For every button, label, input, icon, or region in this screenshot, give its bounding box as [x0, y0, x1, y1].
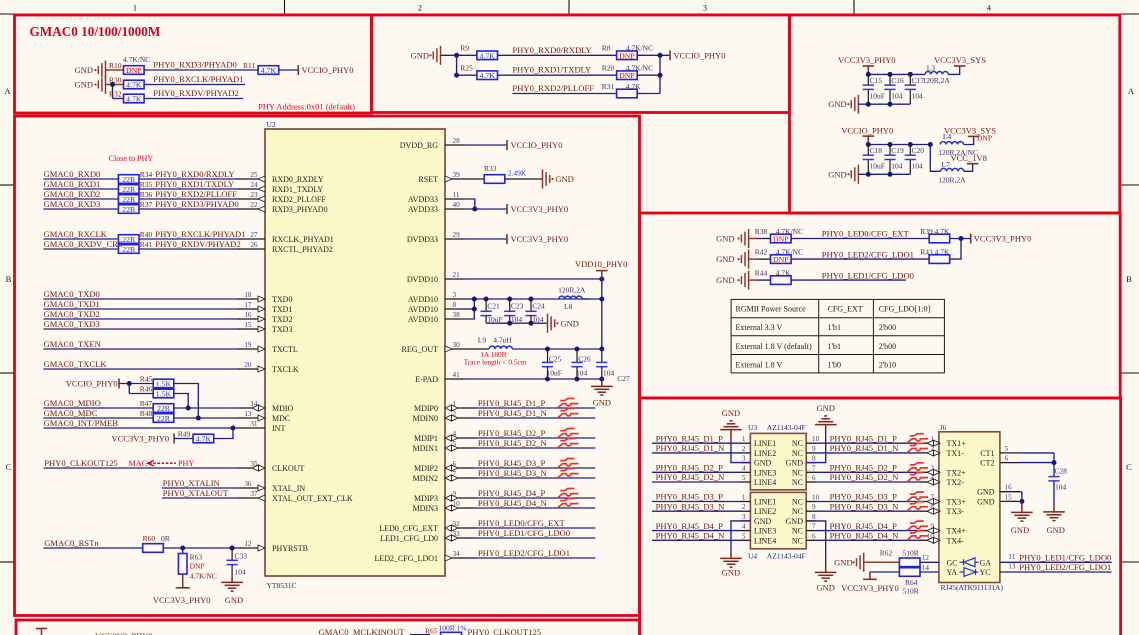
differential pair mark PHY0_RJ45_D1_P J6 [907, 434, 928, 444]
svg-text:R30: R30 [109, 76, 122, 85]
differential pair mark PHY0_RJ45_D3_N J6 [907, 502, 928, 512]
capacitor C18 [863, 145, 885, 175]
sheet zone tick left C/D [0, 561, 15, 563]
net label GMAC0_MCLKINOUT (box7) [319, 627, 431, 635]
svg-text:VCCIO_PHY0: VCCIO_PHY0 [674, 50, 726, 60]
wire net PHY0_RJ45_D3_N (to J6) [816, 501, 929, 511]
svg-text:DNP: DNP [190, 562, 205, 571]
wire R32 to net end / net PHY0_RXDV/PHYAD2 [144, 88, 243, 99]
svg-text:R49: R49 [178, 430, 191, 439]
pin 2 U3 LINE2 [741, 445, 777, 458]
svg-text:PHYRSTB: PHYRSTB [272, 544, 308, 553]
pin 6 J6 CT2 [980, 455, 1019, 468]
svg-text:AVDD10: AVDD10 [408, 315, 438, 324]
svg-text:PHY0_RXD2/PLLOFF: PHY0_RXD2/PLLOFF [512, 83, 594, 93]
junction L8/VDD10 [599, 297, 604, 302]
ground GND (box1 row1) [75, 61, 106, 80]
power port VCC3V3_SYS DNP (box3 g2) [944, 125, 996, 142]
svg-text:B: B [6, 274, 12, 284]
resistor R46 1.5K [140, 385, 174, 399]
pin 16 J6 GND [977, 484, 1019, 497]
sheet zone tick right C/D [1120, 561, 1139, 563]
pin 38 AVDD10 [408, 311, 465, 324]
ground GND (RSET) [543, 170, 574, 189]
svg-text:MDIP3: MDIP3 [414, 494, 438, 503]
svg-text:4.7uH: 4.7uH [493, 335, 512, 344]
pin 1 U4 LINE1 [741, 494, 777, 507]
pin 1 MDIP0 [414, 400, 465, 413]
svg-text:CFG_EXT: CFG_EXT [828, 305, 863, 314]
svg-text:PHY0_RXD3/PHYAD0: PHY0_RXD3/PHYAD0 [155, 199, 239, 209]
svg-text:23: 23 [250, 191, 258, 199]
wire R10 to R11 / net PHY0_RXD3/PHYAD0 [144, 60, 258, 71]
pin 24 RXD1_TXDLY [245, 181, 323, 194]
svg-text:100R 1%: 100R 1% [439, 624, 467, 633]
svg-text:PHY0_RJ45_D4_P: PHY0_RJ45_D4_P [656, 521, 724, 531]
wire GND row2 to R30 [106, 84, 124, 86]
svg-text:3: 3 [703, 4, 707, 13]
junction C21 [484, 297, 489, 302]
svg-text:GND: GND [786, 459, 804, 468]
svg-text:PHY0_RJ45_D2_P: PHY0_RJ45_D2_P [830, 463, 898, 473]
svg-text:GMAC0_TXD1: GMAC0_TXD1 [44, 299, 100, 309]
wire R48 to chip [174, 417, 245, 419]
pin 30 REG_OUT [402, 341, 465, 354]
svg-text:GMAC0_TXD2: GMAC0_TXD2 [44, 309, 100, 319]
wire DVDD10 to VDD10 node [465, 278, 602, 280]
svg-text:LED2_CFG_LDO1: LED2_CFG_LDO1 [374, 554, 438, 563]
svg-text:104: 104 [1055, 482, 1067, 491]
svg-text:MDIN2: MDIN2 [413, 474, 438, 483]
svg-text:PHY0_RXCLK/PHYAD1: PHY0_RXCLK/PHYAD1 [153, 74, 243, 84]
pin 14 MDIO [245, 400, 294, 413]
wire net PHY0_RJ45_D2_P (left of U3/U4) [652, 463, 741, 473]
junction C27 top [599, 347, 604, 352]
power port VCCIO_PHY0 (box2) [670, 50, 725, 60]
svg-text:TX1-: TX1- [947, 449, 965, 458]
svg-text:LINE3: LINE3 [754, 468, 776, 477]
svg-text:DNP: DNP [773, 255, 789, 264]
svg-text:GND: GND [561, 318, 579, 328]
svg-text:R36: R36 [140, 190, 153, 199]
svg-text:DVDD10: DVDD10 [407, 275, 438, 284]
svg-text:LINE2: LINE2 [754, 449, 776, 458]
svg-text:R20: R20 [602, 64, 615, 73]
svg-text:104: 104 [603, 368, 615, 377]
junction C27 bottom [599, 377, 604, 382]
wire R46 to MDIO [174, 394, 188, 409]
svg-text:GMAC0_MCLKINOUT: GMAC0_MCLKINOUT [319, 627, 406, 635]
junction C15 bottom [866, 102, 871, 107]
svg-text:PHY0_RJ45_D2_P: PHY0_RJ45_D2_P [478, 428, 546, 438]
svg-text:XTAL_IN: XTAL_IN [272, 484, 305, 493]
svg-text:U4: U4 [748, 551, 757, 560]
svg-text:R11: R11 [243, 61, 255, 70]
resistor R49 4.7K [178, 430, 214, 444]
connector J6 RJ45 body [939, 423, 1004, 592]
wire net GMAC0_RXCLK [44, 229, 119, 239]
svg-text:R32: R32 [109, 90, 122, 99]
svg-text:22R: 22R [157, 414, 171, 423]
svg-text:NC: NC [792, 507, 803, 516]
svg-text:104: 104 [235, 568, 247, 577]
pin 3 U4 GND [741, 513, 772, 526]
svg-text:L7: L7 [942, 160, 951, 169]
junction VCCIO branch [127, 381, 132, 386]
wire R30 to net end / net PHY0_RXCLK/PHYAD1 [144, 74, 245, 85]
wire L7 to VCC_1V8 [964, 164, 973, 172]
svg-text:MDIN1: MDIN1 [413, 444, 438, 453]
resistor R8 [602, 44, 653, 61]
svg-text:4.7K: 4.7K [480, 71, 496, 80]
svg-text:39: 39 [453, 171, 461, 179]
svg-text:PHY0_CLKOUT125: PHY0_CLKOUT125 [468, 627, 542, 635]
svg-text:VCC3V3_PHY0: VCC3V3_PHY0 [511, 234, 569, 244]
svg-text:VCC3V3_PHY0: VCC3V3_PHY0 [974, 234, 1032, 244]
svg-text:22R: 22R [157, 404, 171, 413]
pin 5 U3 LINE4 [741, 474, 777, 487]
power port VCC3V3_PHY0 (AVDD33) [507, 204, 568, 214]
svg-text:External 1.8 V (default): External 1.8 V (default) [736, 342, 812, 351]
svg-text:510R: 510R [903, 548, 919, 557]
resistor R10 [109, 55, 150, 75]
pin 7 J6 TX3+ [927, 494, 966, 507]
wire net PHY0_LED1/CFG_LDO0 (U2 side) [465, 528, 595, 538]
svg-text:PHY0_RXD0/RXDLY: PHY0_RXD0/RXDLY [155, 169, 234, 179]
wire DVDD33 to VCC3V3_PHY0 [465, 238, 507, 240]
svg-text:YC: YC [980, 568, 991, 577]
svg-text:VCCIO_PHY0: VCCIO_PHY0 [66, 379, 118, 389]
svg-text:R47: R47 [140, 399, 153, 408]
svg-text:TXCTL: TXCTL [272, 345, 298, 354]
wire ground rail g2 [858, 173, 910, 175]
svg-text:LINE3: LINE3 [754, 527, 776, 536]
svg-text:PHY0_RXD2/PLLOFF: PHY0_RXD2/PLLOFF [155, 189, 237, 199]
wire net GMAC0_RXD3 [44, 199, 119, 209]
junction AVDD10 b [472, 307, 477, 312]
pin 25 RXD0_RXDLY [245, 171, 324, 184]
svg-text:CLKOUT: CLKOUT [272, 464, 305, 473]
svg-text:R43 4.7K: R43 4.7K [920, 248, 950, 257]
wire net PHY0_RJ45_D4_P (U2 side) [465, 488, 595, 498]
svg-text:41: 41 [453, 371, 461, 379]
junction R39/R43 [959, 236, 964, 241]
wire R62 to J6 pin12 [920, 561, 939, 563]
wire R47 to chip [174, 407, 245, 409]
capacitor C17 [905, 74, 925, 104]
svg-text:104: 104 [891, 91, 903, 100]
wire R64 to J6 pin14 [920, 571, 939, 573]
svg-text:38: 38 [453, 311, 461, 319]
svg-text:TX3-: TX3- [947, 507, 965, 516]
svg-text:104: 104 [912, 91, 924, 100]
wire net PHY0_XTALIN [162, 478, 245, 488]
svg-text:PHY0_RXD1/TXDLY: PHY0_RXD1/TXDLY [512, 65, 591, 75]
svg-text:37: 37 [250, 490, 258, 498]
svg-text:9: 9 [812, 503, 816, 511]
resistor R47 22R [140, 399, 174, 413]
pin 33 LED1_CFG_LD0 [380, 530, 465, 543]
svg-text:VCC3V3_PHY0: VCC3V3_PHY0 [841, 583, 899, 593]
svg-text:GMAC0_RXDV_CRS: GMAC0_RXDV_CRS [44, 239, 123, 249]
svg-text:PHY0_RJ45_D4_N: PHY0_RJ45_D4_N [656, 531, 726, 541]
svg-text:10uF: 10uF [487, 315, 502, 324]
svg-text:NC: NC [792, 478, 803, 487]
svg-text:MDIP2: MDIP2 [414, 464, 438, 473]
svg-text:26: 26 [250, 241, 258, 249]
wire net PHY0_RJ45_D4_P (left of U3/U4) [652, 521, 741, 531]
svg-text:8: 8 [812, 455, 816, 463]
svg-text:36: 36 [244, 480, 252, 488]
resistor R60 0R [143, 534, 170, 552]
svg-text:18: 18 [244, 291, 252, 299]
wire vertical to R25 row [456, 55, 458, 75]
resistor R30 [109, 76, 144, 90]
svg-text:4: 4 [987, 4, 991, 13]
sheet ruler top line [0, 13, 1139, 15]
pin 12 J6 GC [922, 554, 958, 567]
wire net PHY0_LED2/CFG_LDO1 [791, 249, 929, 259]
wire net PHY0_RJ45_D2_N (left of U3/U4) [652, 472, 741, 482]
wire CT1/CT2 to C28 [1019, 453, 1054, 477]
svg-text:4.7K: 4.7K [196, 435, 212, 444]
junction C15 top [866, 72, 871, 77]
junction INT/R49 [231, 426, 236, 431]
wire AVDD10 pins joined [465, 299, 486, 319]
svg-text:28: 28 [453, 137, 461, 145]
wire net PHY0_RJ45_D4_P (to J6) [816, 521, 929, 531]
svg-text:22: 22 [250, 201, 258, 209]
svg-text:R31: R31 [602, 82, 615, 91]
svg-text:30: 30 [453, 341, 461, 349]
wire GND to R62 [864, 561, 900, 563]
pin 7 U3 NC [792, 464, 816, 477]
pin 39 RSET [418, 171, 465, 184]
svg-text:34: 34 [453, 550, 461, 558]
pin 19 TXCTL [244, 341, 298, 354]
svg-text:22R: 22R [122, 245, 136, 254]
pin 17 TXD1 [244, 301, 292, 314]
pin 2 U4 LINE2 [741, 503, 777, 516]
svg-text:PHY0_CLKOUT125: PHY0_CLKOUT125 [44, 458, 118, 468]
ground GND (U3 pin3 left) [720, 408, 750, 463]
wire net GMAC0_RXD0 [44, 169, 119, 179]
resistor R31 [602, 82, 641, 98]
svg-text:LINE1: LINE1 [754, 498, 776, 507]
svg-text:GND: GND [722, 568, 740, 578]
svg-text:DNP: DNP [619, 51, 635, 60]
capacitor C19 [884, 145, 904, 175]
differential pair mark PHY0_RJ45_D2_P [558, 429, 579, 439]
svg-text:10: 10 [812, 435, 820, 443]
svg-text:GND: GND [754, 459, 772, 468]
junction C33 branch [230, 546, 235, 551]
svg-text:MDC: MDC [272, 414, 290, 423]
wire net PHY0_RJ45_D1_N (left of U3/U4) [652, 443, 741, 453]
svg-text:24: 24 [250, 181, 258, 189]
junction C25 bottom [545, 377, 550, 382]
svg-text:VDD10_PHY0: VDD10_PHY0 [575, 259, 627, 269]
svg-text:TX1+: TX1+ [947, 439, 967, 448]
wire net GMAC0_TXCLK [44, 359, 246, 369]
svg-text:GMAC0_RXCLK: GMAC0_RXCLK [44, 229, 108, 239]
svg-text:PHY0_RXD0/RXDLY: PHY0_RXD0/RXDLY [512, 45, 591, 55]
sheet zone tick right B/C [1120, 372, 1139, 374]
svg-text:104: 104 [576, 368, 588, 377]
svg-text:PHY0_LED1/CFG_LDO0: PHY0_LED1/CFG_LDO0 [1019, 552, 1111, 562]
inductor L9 4.7uH [478, 335, 513, 349]
wire RSET to R33 [465, 178, 484, 180]
junction AVDD10 a [472, 297, 477, 302]
svg-text:VCC3V3_SYS: VCC3V3_SYS [934, 55, 986, 65]
svg-text:PHY0_LED2/CFG_LDO1: PHY0_LED2/CFG_LDO1 [822, 249, 914, 259]
svg-text:2: 2 [742, 445, 746, 453]
junction C23 gnd [507, 321, 512, 326]
wire net PHY0_XTALOUT [162, 488, 245, 498]
pin 41 E-PAD [415, 371, 465, 384]
svg-text:R65: R65 [425, 627, 438, 635]
svg-text:NC: NC [792, 468, 803, 477]
wire R25 to R20 / net PHY0_RXD1/TXDLY [498, 65, 617, 76]
junction C26 top [575, 347, 580, 352]
pin 23 RXD2_PLLOFF [245, 191, 326, 204]
svg-text:8: 8 [812, 513, 816, 521]
red block border top middle box [372, 15, 790, 113]
svg-text:R35: R35 [140, 180, 153, 189]
svg-text:DVDD_RG: DVDD_RG [400, 141, 438, 150]
power port (box7, clipped) [36, 629, 47, 635]
wire net GMAC0_TXD1 [44, 299, 246, 309]
junction R46/MDIO [186, 406, 191, 411]
svg-text:R8: R8 [602, 44, 611, 53]
pin 12 PHYRSTB [244, 540, 308, 553]
svg-text:PHY0_RXCLK/PHYAD1: PHY0_RXCLK/PHYAD1 [155, 229, 245, 239]
wire net GMAC0_MDIO [44, 398, 153, 408]
wire branch to L7 [930, 145, 940, 172]
junction C23 [507, 297, 512, 302]
svg-text:120R,2A: 120R,2A [558, 286, 586, 295]
red block border main chip box [15, 116, 640, 616]
svg-text:19: 19 [244, 341, 252, 349]
pin 5 U4 LINE4 [741, 532, 777, 545]
wire net PHY0_RXCLK/PHYAD1 [139, 229, 246, 239]
wire net GMAC0_RXDV_CRS [44, 239, 123, 249]
wire net GMAC0_TXD0 [44, 289, 246, 299]
differential pair mark PHY0_RJ45_D2_N J6 [907, 473, 928, 483]
svg-text:PHY0_RXDV/PHYAD2: PHY0_RXDV/PHYAD2 [155, 239, 240, 249]
junction (VCCIO rail row2) [658, 73, 663, 78]
wire net PHY0_RJ45_D1_N (U2 side) [465, 408, 595, 418]
pin 10 U3 NC [792, 435, 820, 448]
svg-text:GMAC0_RXD1: GMAC0_RXD1 [44, 179, 101, 189]
svg-text:GND: GND [411, 50, 429, 60]
power port VCCIO_PHY0 (R45/R46) [66, 379, 119, 389]
wire REG_OUT to L9 [465, 348, 489, 350]
pin 15 J6 GND [977, 493, 1019, 506]
pin 6 U3 NC [792, 474, 816, 487]
ground GND (R44) [716, 271, 749, 290]
wire GND to junction to R9 [441, 54, 477, 56]
svg-text:PHY0_RJ45_D4_N: PHY0_RJ45_D4_N [478, 498, 548, 508]
svg-text:PHY0_RJ45_D3_P: PHY0_RJ45_D3_P [656, 492, 724, 502]
svg-text:GND: GND [1046, 525, 1064, 535]
differential pair mark PHY0_RJ45_D4_N J6 [907, 531, 928, 541]
wire L9 to VDD10 rail [512, 348, 601, 350]
svg-text:YT8531C: YT8531C [267, 581, 297, 590]
resistor R43 4.7K [920, 248, 950, 264]
power port VCC3V3_PHY0 (box5) [971, 234, 1032, 244]
pin 10 U4 NC [792, 494, 820, 507]
wire R49 to INT [214, 428, 233, 439]
pin 7 U4 NC [792, 523, 816, 536]
svg-text:VCC3V3_PHY0: VCC3V3_PHY0 [153, 595, 211, 605]
svg-text:GND: GND [555, 174, 573, 184]
pin 21 DVDD10 [407, 271, 465, 284]
wire AVDD10 rail to L8 [486, 298, 591, 300]
svg-text:RXCTL_PHYAD2: RXCTL_PHYAD2 [272, 245, 333, 254]
wire net PHY0_RJ45_D4_N (U2 side) [465, 498, 595, 508]
red block border bottom clock box [16, 620, 640, 635]
svg-text:13: 13 [1008, 563, 1016, 571]
wire net PHY0_LED1/CFG_LDO0 (J6 pin11) [1000, 552, 1112, 562]
svg-text:GMAC0_MDC: GMAC0_MDC [44, 408, 98, 418]
power port VCC3V3_SYS (box3 g1) [934, 55, 986, 66]
pin 4 J6 TX2- [927, 474, 964, 487]
power port VCC3V3_PHY0 (below R63) [153, 574, 211, 605]
svg-text:31: 31 [250, 420, 258, 428]
svg-text:PHY0_XTALIN: PHY0_XTALIN [163, 478, 221, 488]
svg-text:PHY0_LED0/CFG_EXT: PHY0_LED0/CFG_EXT [822, 229, 910, 239]
svg-text:PHY0_LED0/CFG_EXT: PHY0_LED0/CFG_EXT [478, 518, 566, 528]
svg-text:29: 29 [453, 231, 461, 239]
svg-text:CFG_LDO[1:0]: CFG_LDO[1:0] [879, 305, 931, 314]
svg-text:R46: R46 [140, 385, 153, 394]
svg-text:510R: 510R [903, 586, 919, 595]
junction GND15 [1019, 499, 1024, 504]
svg-text:MAC: MAC [129, 459, 148, 468]
pin 4 U3 LINE3 [741, 464, 777, 477]
wire vertical row2 to row3 [112, 85, 114, 99]
pin 6 U4 NC [792, 532, 816, 545]
svg-text:2.49K: 2.49K [508, 169, 527, 178]
svg-text:VCC3V3_PHY0: VCC3V3_PHY0 [838, 55, 896, 65]
svg-text:Close to PHY: Close to PHY [109, 154, 154, 163]
resistor R34 22R [118, 170, 152, 184]
pin 26 RXCTL_PHYAD2 [245, 241, 333, 254]
svg-text:GND: GND [977, 488, 995, 497]
svg-text:AZ1143-04F: AZ1143-04F [767, 551, 806, 560]
svg-text:10uF: 10uF [870, 91, 885, 100]
svg-text:B: B [1126, 274, 1132, 284]
svg-text:21: 21 [453, 271, 461, 279]
wire GND to R42 [749, 258, 757, 260]
svg-text:R42: R42 [755, 248, 768, 257]
svg-text:U2: U2 [267, 120, 276, 129]
wire ground rail g1 [858, 103, 910, 105]
power port VCCIO_PHY0 (box3 g2) [841, 125, 893, 144]
resistor R38 [755, 227, 803, 243]
svg-text:LINE2: LINE2 [754, 507, 776, 516]
svg-text:CT1: CT1 [980, 449, 994, 458]
power port VCC_1V8 [951, 153, 987, 164]
red block border LED config box [640, 213, 1121, 398]
svg-text:10: 10 [812, 494, 820, 502]
svg-text:E-PAD: E-PAD [415, 375, 438, 384]
resistor R63 DNP vertical [178, 548, 216, 581]
wire net PHY0_RJ45_D2_P (U2 side) [465, 428, 595, 438]
resistor R25 [460, 64, 497, 81]
wire net PHY0_LED0/CFG_EXT (U2 side) [465, 518, 595, 528]
